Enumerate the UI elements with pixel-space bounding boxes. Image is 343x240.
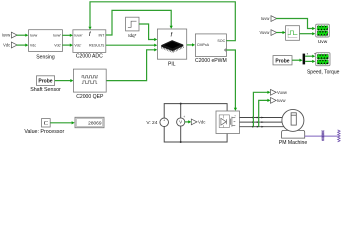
svg-text:Shaft Sensor: Shaft Sensor [30, 87, 61, 93]
svg-text:+: + [183, 115, 185, 119]
wire Idq* to PIL [139, 24, 157, 41]
block Idq* reference [126, 17, 139, 38]
three-phase line C [240, 126, 284, 128]
three-phase line B [240, 121, 284, 123]
PM Machine [279, 109, 307, 146]
svg-text:Vdc': Vdc' [54, 43, 61, 47]
mechanical rotational reference (ground) [338, 130, 341, 142]
svg-text:Sensing: Sensing [36, 55, 55, 61]
wire ADC RESULTs to PIL [106, 44, 158, 47]
wire Probe to demux [292, 59, 303, 62]
wire DC+ rail [164, 104, 227, 118]
svg-text:RESULTs: RESULTs [89, 44, 105, 48]
svg-text:C2000 QEP: C2000 QEP [76, 94, 104, 100]
svg-text:Vdc: Vdc [30, 43, 36, 47]
block Probe (speed/torque) [273, 56, 292, 65]
svg-text:V: V [179, 120, 182, 125]
wire Vdc to Sensing [17, 44, 29, 47]
demux [303, 54, 306, 65]
inverter block (three-phase converter) [216, 111, 240, 134]
output port Iuvw [271, 98, 286, 104]
svg-text:+: + [163, 119, 165, 123]
svg-text:Vuvw: Vuvw [259, 30, 269, 35]
wire ePWM PWM output to inverter gate [226, 50, 237, 111]
svg-text:C: C [44, 120, 48, 127]
svg-text:Probe: Probe [275, 58, 289, 64]
block Value: Processor (C source) [24, 119, 64, 135]
wire C2000 QEP output to PIL [106, 48, 157, 80]
wire Probe to QEP [55, 79, 74, 82]
subsystem Sensing [29, 30, 63, 61]
block PIL (processor-in-the-loop) [157, 29, 186, 67]
svg-text:Iuvw: Iuvw [2, 32, 10, 37]
svg-text:Iuvw: Iuvw [30, 34, 38, 38]
mechanical shaft (physical connection) [305, 135, 338, 137]
wire Iuvw to scope Uvw [276, 19, 315, 31]
output port Vuvw [271, 89, 287, 95]
block C2000 ePWM [195, 34, 227, 64]
input port Iuvw (top right) [261, 16, 277, 22]
input port Vdc (left) [3, 42, 17, 48]
wire voltmeter to Vdc port [185, 120, 192, 123]
svg-text:Iuvw': Iuvw' [74, 34, 82, 38]
wire current sense to Iuvw port [259, 99, 271, 127]
svg-text:Vuvw: Vuvw [277, 90, 287, 95]
svg-text:PM Machine: PM Machine [279, 140, 307, 146]
scope Uvw [316, 24, 330, 45]
svg-text:Iuvw: Iuvw [261, 16, 269, 21]
svg-text:Vdc: Vdc [3, 42, 10, 47]
input port Vuvw (top right) [259, 30, 276, 36]
svg-text:PIL: PIL [168, 61, 176, 67]
svg-text:SOC: SOC [217, 39, 225, 43]
scope Speed, Torque [307, 53, 340, 76]
wire Sensing Vdc' to ADC [62, 44, 73, 47]
input port Iuvw (left) [2, 32, 17, 38]
voltmeter Vdc [177, 103, 186, 143]
svg-text:Iuvw': Iuvw' [53, 34, 61, 38]
wire Iuvw to Sensing [17, 34, 29, 37]
block C2000 ADC [73, 30, 106, 60]
svg-text:Speed, Torque: Speed, Torque [307, 69, 340, 75]
wire DC- rail [164, 127, 227, 142]
wire demux to scope (speed) [305, 55, 315, 58]
wire ADC INT to PIL trigger (up and over) [106, 10, 173, 35]
output port Vdc (measurement) [191, 119, 206, 125]
wire rate transition to scope Uvw [300, 32, 316, 35]
svg-text:INT: INT [99, 33, 106, 37]
svg-text:C2000 ADC: C2000 ADC [76, 54, 103, 60]
display block 28069 [75, 117, 104, 127]
svg-text:Vdc': Vdc' [74, 44, 81, 48]
sample time dots [307, 53, 308, 54]
wire ePWM SOC to ADC trigger (big loop) [88, 2, 235, 41]
wire PIL to ePWM CMPxA [187, 43, 195, 46]
svg-text:28069: 28069 [88, 121, 102, 127]
wire voltage sense to Vuvw port [253, 91, 270, 127]
wire Sensing Iuvw' to ADC [62, 34, 73, 37]
phase direction arrows [252, 117, 264, 128]
svg-text:Uvw: Uvw [318, 39, 328, 45]
rotational coupling element [322, 131, 325, 141]
wire C to display [50, 121, 74, 124]
svg-text:V: 24: V: 24 [146, 120, 157, 126]
rate transition block [286, 26, 300, 41]
DC voltage source V:24 [146, 118, 168, 128]
svg-text:Value: Processor: Value: Processor [24, 129, 64, 135]
svg-text:Idq*: Idq* [128, 33, 136, 38]
wire demux to scope (torque) [305, 60, 315, 63]
svg-text:CMPxA: CMPxA [197, 43, 210, 47]
block C2000 QEP [73, 69, 106, 100]
wire Vuvw to rate transition [276, 31, 286, 34]
block Probe (shaft sensor) [30, 76, 61, 93]
svg-text:Iuvw: Iuvw [277, 98, 285, 103]
svg-text:Vdc: Vdc [198, 120, 206, 125]
svg-text:Probe: Probe [38, 79, 52, 85]
svg-text:C2000 ePWM: C2000 ePWM [195, 58, 227, 64]
three-phase line A [240, 117, 284, 119]
